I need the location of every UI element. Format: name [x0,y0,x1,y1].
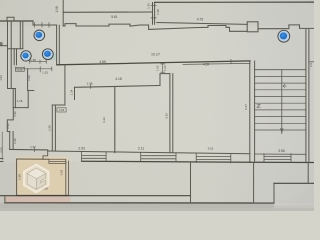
svg-text:10.27: 10.27 [151,53,160,57]
window W5 [264,154,291,163]
svg-text:0.65: 0.65 [17,68,23,72]
svg-text:3.61: 3.61 [208,147,214,151]
svg-text:2.93: 2.93 [78,146,85,150]
window ticks on wall y=25 [35,23,50,28]
svg-text:1.60: 1.60 [163,65,167,71]
left outer wall (double) [8,21,12,89]
tick right of stair [309,61,314,63]
left edge stub y=45.7 [0,45,8,47]
balcony right wall (double) [66,161,69,196]
vestibule bottom wall y=49 [8,48,23,50]
svg-text:1.98: 1.98 [18,174,22,180]
corridor top wall with bumps [63,24,247,32]
svg-text:1.97: 1.97 [30,145,36,149]
svg-text:1.06: 1.06 [155,65,159,71]
notch at room2 top right [160,74,170,86]
window W3 [196,153,231,163]
stair right wall (double) [306,30,309,162]
wall x=15 (double) [14,49,16,65]
stair box top [255,69,306,71]
stair divider [281,70,283,134]
ground line right y=183 [274,182,314,184]
ticks on x=153 wall [151,6,156,18]
stamp C3 [42,49,53,60]
svg-text:1.34: 1.34 [70,89,74,95]
dim ticks x=162.7 [162,63,164,72]
svg-text:1.98: 1.98 [87,82,93,86]
bottom wall top line [48,151,250,154]
svg-text:1.98: 1.98 [55,6,59,12]
window W2 [141,153,176,162]
svg-text:4.39: 4.39 [203,63,210,67]
wall 1.18 y=107.6 [13,107,28,109]
stair treads [255,76,306,130]
apartment left wall lower (double) [52,105,55,151]
tick on wall 1.97 [34,148,36,152]
tick near 1.98 [89,85,91,89]
svg-text:0.48: 0.48 [13,138,17,144]
balcony left wall [16,159,18,196]
svg-text:0.90: 0.90 [13,111,17,117]
upper wall 4.76 [157,23,247,25]
svg-text:4.76: 4.76 [197,18,204,22]
main corridor bottom wall 10.27 [57,61,250,65]
apartment left wall upper [64,65,66,105]
inner wall y=87 [75,86,161,88]
balcony door box [49,159,66,163]
svg-text:1.98: 1.98 [156,9,160,15]
vestibule right wall (double) [20,21,23,49]
ground line y=195.7 [0,195,191,197]
svg-text:2.96: 2.96 [48,125,52,131]
vertical wall x=153 (double) [153,3,155,25]
tan highlight over balcony room [16,157,67,196]
divider arrow [281,129,283,133]
salmon band below balcony [5,197,71,203]
svg-text:1.18: 1.18 [17,99,23,103]
stamp C1 [34,30,45,41]
bottom wall top line right of stair [255,153,306,155]
stair door mark [257,105,260,108]
svg-text:0.90: 0.90 [6,123,10,129]
left dim line x=2.2 [1,132,3,160]
svg-text:1.94: 1.94 [0,75,3,81]
ground left vertical [4,196,6,203]
left edge marks [0,159,3,162]
balcony top wall [17,158,49,160]
pillar x=247-258 [247,22,258,32]
wall 1.02 x=27.6 [28,69,34,91]
svg-text:4.05: 4.05 [0,147,4,153]
jog y=105 [52,104,65,106]
wall y=25 to corridor [33,24,57,26]
left edge label smudge [0,42,3,46]
wall x=170 (double) [170,74,173,153]
svg-text:3.23: 3.23 [102,117,106,123]
svg-text:0.94: 0.94 [59,108,65,112]
corridor left end wall (double) [57,25,60,65]
step to balcony [43,150,48,159]
svg-text:1.15: 1.15 [42,70,48,74]
top wall y=2 [155,1,314,3]
vertical wall x=63 [62,0,64,26]
svg-text:2.9: 2.9 [309,63,313,67]
wall 1.97 y=149.4 [10,148,48,151]
teal smudge [50,53,56,61]
svg-text:1.02: 1.02 [27,75,31,81]
svg-text:3.26: 3.26 [165,113,169,119]
dimension labels [0,3,313,191]
wall right of pillar with bump [258,25,314,29]
stamp C4 [278,30,290,42]
ground vertical x=190.5 [190,162,192,203]
right wall lower x=308 [307,163,309,183]
wall step x=33 [32,21,34,25]
wall 5.61 y=12 [63,11,152,13]
left lower wall (double) y 131.5-149.4 [10,132,13,150]
stamp C2 [21,51,31,61]
window W1 [82,152,107,161]
dim ticks near 1.98 label [30,61,47,63]
dark strip at very bottom of photo [0,203,274,211]
tick x=231 [230,60,232,64]
ground vertical x=253.6 [253,162,255,203]
pillar on top-left wall [7,17,14,21]
stair left wall (double) [250,61,255,161]
svg-text:0.82: 0.82 [60,169,64,175]
entrance step vertical x=274 [273,183,275,203]
ground line y=203 [5,202,274,204]
balcony bottom (darker) [17,195,69,197]
dimension line y=68.8 with 0.65 box [16,60,67,112]
stub wall 1.34 [74,87,76,99]
bottom wall bottom line [82,161,250,162]
svg-text:5.61: 5.61 [111,15,118,19]
room divider x=115 [114,87,116,153]
watermark logo hexagon [24,165,48,193]
left boundary zigzag down [7,108,13,132]
svg-text:2.11: 2.11 [138,147,144,151]
wall x=28.2 up to alcove [27,91,29,108]
svg-text:3.56: 3.56 [278,149,285,153]
big room inner top line [183,63,250,64]
wall x=13.5 (double) y 88-107.6 [13,89,15,108]
svg-text:6.47: 6.47 [244,104,248,110]
wall top-left exterior y=21 [0,20,33,22]
outer wall jog y=88 [8,88,16,90]
watermark cube [27,168,45,189]
stair tread mark [283,85,286,88]
svg-text:1.42: 1.42 [147,3,151,9]
svg-text:4.85: 4.85 [99,60,106,64]
svg-text:4.18: 4.18 [115,77,122,81]
